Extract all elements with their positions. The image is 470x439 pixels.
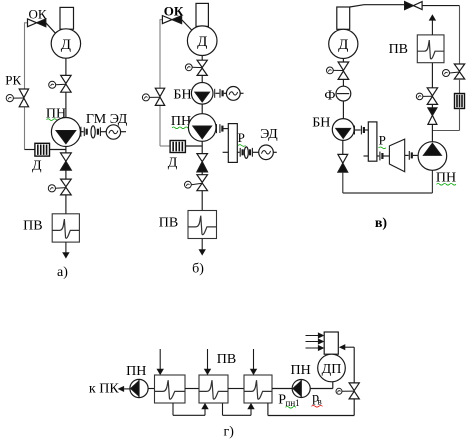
feed pump PN (scheme v) — [418, 142, 447, 171]
reducer input stub (scheme v) — [364, 155, 369, 157]
svg-text:ПВ: ПВ — [389, 42, 408, 57]
steam arrow heater1 (scheme g) — [159, 349, 161, 374]
svg-text:г): г) — [223, 425, 234, 439]
svg-text:Д: Д — [197, 34, 207, 50]
svg-text:ЭД: ЭД — [260, 127, 278, 142]
svg-text:а): а) — [57, 265, 68, 280]
wire D to valve (scheme a) — [65, 58, 67, 75]
wire BN to PN (scheme b) — [201, 104, 203, 114]
hydraulic coupling (scheme b) — [244, 147, 248, 158]
deaerator DP (scheme g) — [318, 354, 346, 382]
svg-text:БН: БН — [173, 87, 191, 102]
wire valve to heater PV (scheme a) — [65, 195, 67, 214]
reducer R (scheme b) — [228, 124, 237, 163]
filter F (scheme v) — [336, 86, 351, 101]
booster pump BN (scheme b) — [191, 83, 213, 105]
control valve below D (scheme a) — [61, 75, 71, 83]
drain return arrow into DP (scheme g) — [341, 346, 355, 348]
bottom wire (scheme v) — [342, 172, 344, 193]
drain line with valve (scheme g) — [353, 347, 355, 383]
deaerator column (scheme a) — [60, 7, 74, 29]
svg-text:к ПК: к ПК — [89, 382, 119, 397]
deaerator D (scheme v) — [329, 29, 358, 58]
booster motor (scheme b) — [224, 92, 227, 94]
recirculation valve RK (scheme a) — [19, 89, 28, 98]
turbine drive (scheme v) — [389, 139, 404, 172]
check valve above PN (scheme v) — [428, 108, 437, 116]
valve on recirculation line (scheme b) — [155, 88, 164, 96]
feed pump PN2 (scheme g) — [292, 380, 310, 398]
booster pump BN (scheme v) — [332, 119, 354, 141]
control valve before PV (scheme b) — [197, 175, 208, 183]
wire pump1 to heater1 (scheme g) — [148, 388, 154, 390]
heater PV3 (scheme g) — [244, 375, 272, 403]
svg-text:Д: Д — [61, 37, 71, 53]
scheme v: top line to check valve (wire) — [350, 5, 364, 7]
wire OK to deaerator (scheme a) — [46, 23, 56, 33]
throttle box D (scheme a) — [35, 143, 50, 156]
feed pump PN1 (scheme g) — [130, 379, 148, 397]
check valve below BN (scheme v) — [338, 154, 348, 163]
drain line to heater3 (scheme g) — [353, 399, 355, 416]
wire throttle to pump outlet (scheme b) — [185, 145, 202, 147]
heater PV1 (scheme g) — [155, 375, 186, 403]
wire valve to booster pump (scheme b) — [201, 75, 203, 82]
check valve top (scheme v) — [405, 2, 414, 10]
svg-text:Д: Д — [32, 159, 42, 174]
outlet arrow (scheme a) — [65, 242, 67, 257]
wire check valve to valve (scheme a) — [65, 170, 67, 179]
shaft PN to reducer (scheme b) — [216, 124, 218, 133]
wire valve to throttle (scheme v) — [459, 79, 461, 94]
svg-text:ПВ: ПВ — [217, 352, 236, 367]
hydraulic coupling GM (scheme a) — [91, 126, 95, 138]
svg-text:ПН: ПН — [126, 364, 146, 379]
heater PV2 (scheme g) — [199, 375, 228, 403]
wire check to valve (scheme v) — [431, 104, 433, 107]
svg-text:Ф: Ф — [324, 88, 335, 103]
drain control valve (scheme g) — [349, 383, 359, 391]
outlet arrow to boiler (scheme g) — [119, 388, 130, 390]
outlet arrow (scheme b) — [201, 239, 203, 255]
wire valve to pump PN (scheme a) — [65, 92, 67, 117]
wire pump2 to DP (scheme g) — [310, 388, 333, 390]
control valve below PV (scheme v) — [427, 88, 437, 96]
wire D to valve (scheme b) — [201, 56, 203, 61]
feed pump PN (scheme a) — [51, 118, 80, 147]
heater PV (scheme b) — [188, 211, 217, 239]
shaft BN to motor (scheme b) — [214, 89, 216, 98]
svg-text:Д: Д — [168, 156, 178, 171]
heater outlet arrow up (scheme v) — [431, 16, 433, 35]
wire check valve to right line (scheme v) — [422, 5, 459, 7]
scheme b: recirculation line (wire) — [159, 20, 161, 89]
electric motor ED (scheme b) — [259, 145, 274, 160]
steam arrow heater3 (scheme g) — [253, 349, 255, 374]
deaerator D (scheme b) — [187, 26, 217, 56]
wire BN to check valve (scheme v) — [342, 140, 344, 154]
wire heater3 to pump2 (scheme g) — [272, 388, 292, 390]
wire throttle to pump outlet (scheme a) — [50, 149, 66, 151]
check valve OK (scheme b) — [162, 16, 172, 24]
steam arrows into DP column (scheme g) — [306, 335, 323, 337]
throttle box right (scheme v) — [455, 94, 465, 109]
scheme a: recirculation line (wire) — [24, 23, 26, 89]
wire D to valve (scheme v) — [342, 59, 344, 63]
deaerator column DP (scheme g) — [324, 332, 338, 354]
right line to junction (scheme v) — [459, 109, 461, 131]
svg-text:ГМ: ГМ — [86, 112, 107, 127]
svg-text:Р: Р — [379, 133, 386, 148]
svg-text:в: в — [318, 396, 322, 406]
deaerator column (scheme b) — [196, 3, 208, 26]
svg-text:ПВ: ПВ — [23, 219, 42, 234]
svg-text:в): в) — [375, 216, 388, 231]
control valve below D (scheme v) — [338, 62, 349, 70]
check valve below pump (scheme b) — [197, 154, 208, 162]
coupling to ED (scheme b) — [251, 148, 253, 157]
control valve below D (scheme b) — [197, 60, 207, 67]
svg-text:ДП: ДП — [322, 362, 342, 377]
coupling GM to ED (scheme a) — [99, 127, 101, 136]
wire valve to heater PV (scheme b) — [201, 191, 203, 211]
wire PV to valve (scheme v) — [431, 63, 433, 88]
deaerator D (scheme a) — [51, 29, 80, 58]
wire to throttle D (scheme a) — [25, 149, 35, 151]
reducer R (scheme v) — [368, 122, 377, 161]
wire heater1 to heater2 (scheme g) — [185, 388, 199, 390]
drain cascade heater2 to heater3 (scheme g) — [222, 403, 224, 415]
steam arrow heater2 (scheme g) — [207, 349, 209, 374]
svg-text:б): б) — [192, 262, 204, 277]
reducer input stub (scheme b) — [223, 151, 229, 153]
wire check to valve (scheme b) — [201, 172, 203, 175]
check valve below pump (scheme a) — [61, 153, 72, 161]
wire filter to BN (scheme v) — [342, 101, 344, 119]
wire PN up to junction (scheme v) — [431, 125, 433, 142]
wire valve to filter (scheme v) — [342, 79, 344, 86]
wire OK to deaerator (scheme b) — [182, 20, 192, 31]
check valve OK (scheme a) — [28, 19, 37, 27]
throttle box D (scheme b) — [170, 141, 185, 153]
svg-text:Д: Д — [338, 37, 348, 53]
shaft reducer to turbine (scheme v) — [377, 155, 379, 157]
electric motor ED (scheme a) — [106, 125, 120, 139]
shaft BN to reducer (scheme v) — [354, 126, 356, 135]
svg-text:БН: БН — [312, 116, 330, 131]
right line down (scheme v) — [459, 6, 461, 64]
deaerator column (scheme v) — [337, 7, 350, 29]
shaft turbine to PN (scheme v) — [405, 154, 409, 156]
heater PV (scheme a) — [52, 214, 79, 242]
wire heater2 to heater3 (scheme g) — [228, 388, 244, 390]
svg-text:РК: РК — [5, 73, 21, 88]
svg-text:Р: Р — [238, 130, 245, 145]
control valve before PV (scheme a) — [61, 179, 72, 187]
drain cascade heater1 to heater2 (scheme g) — [172, 403, 174, 415]
feed pump PN (scheme b) — [188, 114, 216, 142]
heater PV (scheme v) — [417, 35, 444, 63]
svg-text:ПН: ПН — [290, 363, 310, 378]
valve on right line (scheme v) — [454, 64, 464, 71]
shaft reducer to GM (scheme b) — [237, 151, 239, 153]
shaft PN to GM (scheme a) — [80, 127, 82, 137]
svg-text:ПВ: ПВ — [159, 216, 178, 231]
